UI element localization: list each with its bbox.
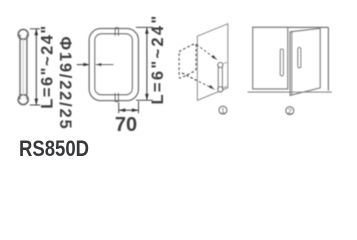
handle side view: tube body	[20, 35, 27, 100]
svg-text:L=6"~24": L=6"~24"	[38, 24, 56, 109]
model number RS850D	[19, 136, 89, 161]
handle front view: bottom post collar	[115, 93, 118, 102]
installation fig 1: glass panel	[197, 24, 227, 101]
dimension 70: extension lines	[119, 101, 139, 113]
installation fig 2: open right door	[290, 28, 320, 95]
installation fig 1: label circled 1	[219, 106, 227, 115]
installation fig 2: closed left door	[253, 27, 288, 89]
dimension text 70	[115, 114, 137, 136]
svg-text:2: 2	[288, 107, 292, 116]
dimension 70: dimension line with arrows	[119, 108, 138, 112]
installation fig 2: label circled 2	[286, 107, 294, 116]
installation fig 2: floor line	[248, 91, 332, 93]
installation fig 1: insertion arrow top (dashed)	[197, 45, 218, 61]
dimension L (left figure): dimension line with arrows	[35, 29, 39, 105]
dimension Phi tube diameter: inside arrow	[95, 63, 113, 66]
handle front view: outer tube contour	[89, 29, 138, 101]
installation fig 2: frame right jamb	[327, 27, 329, 90]
installation fig 1: insertion arrow bottom (dashed)	[182, 73, 215, 90]
handle front view: inner tube contour	[95, 34, 133, 95]
handle front view: top post collar	[115, 28, 118, 36]
dimension L (front view): extension lines	[136, 27, 153, 100]
dimension Phi tube diameter: outside arrow	[77, 63, 90, 66]
svg-text:RS850D: RS850D	[19, 136, 89, 161]
installation fig 2: left door handle	[280, 49, 283, 76]
installation fig 1: mounted handle side view	[218, 62, 228, 92]
svg-text:70: 70	[115, 114, 137, 136]
installation fig 1: handle behind glass (dashed)	[179, 44, 196, 78]
installation fig 2: frame top	[252, 26, 328, 28]
svg-text:L=6"~24": L=6"~24"	[149, 14, 167, 105]
dimension text Phi19/22/25 (rotated)	[56, 37, 74, 131]
dimension L (left figure): extension ticks	[30, 29, 40, 105]
dimension text L=6"~24" (left figure, rotated)	[38, 24, 56, 109]
installation fig 2: right door handle	[298, 47, 301, 68]
handle side view: top flange circle	[18, 30, 28, 40]
svg-text:1: 1	[221, 106, 225, 115]
dimension L (front view): dimension line with arrows	[145, 27, 149, 100]
svg-text:Φ19/22/25: Φ19/22/25	[56, 37, 74, 131]
dimension text L=6"~24" (front view, rotated)	[149, 14, 167, 105]
handle side view: bottom flange circle	[18, 95, 28, 105]
